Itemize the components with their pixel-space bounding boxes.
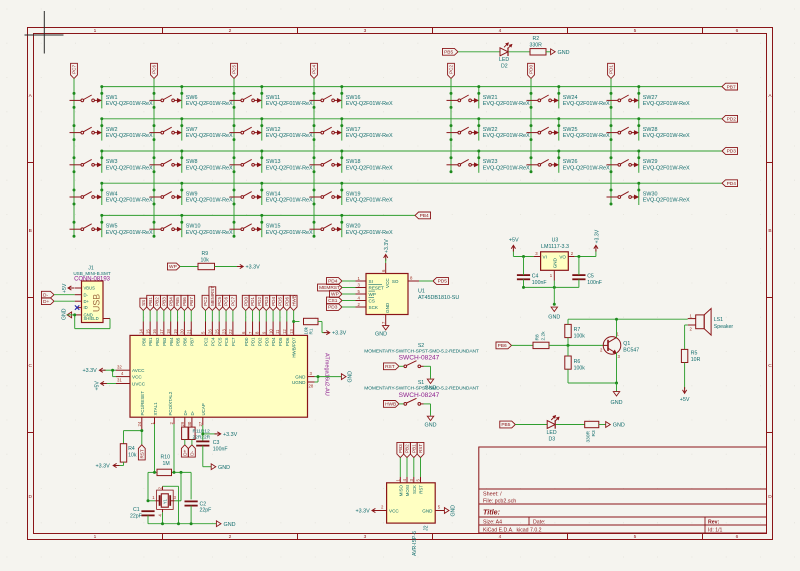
node PB5 label [174, 295, 181, 310]
wire U3 output [575, 250, 596, 257]
svg-text:SW20: SW20 [346, 224, 361, 230]
wire C5 leads [578, 257, 580, 288]
node PC7 label [230, 295, 237, 310]
svg-text:S1: S1 [418, 380, 424, 386]
svg-text:EVQ-Q2F01W-ReX: EVQ-Q2F01W-ReX [483, 133, 530, 139]
resistor R11 22R [182, 427, 188, 439]
wire WP to U1 [342, 293, 356, 295]
grid origin cross [25, 11, 64, 54]
svg-text:SS: SS [141, 300, 146, 306]
svg-text:PD5: PD5 [278, 297, 283, 306]
node PB4 label [167, 295, 174, 310]
svg-text:R1: R1 [309, 328, 314, 334]
switch SW22 [447, 127, 530, 139]
wire SW25 to row bus [558, 119, 560, 141]
svg-text:2: 2 [229, 28, 232, 34]
wire SW14 to row bus [261, 183, 263, 205]
ground GND (C3) [211, 464, 230, 471]
wire row bus PD2 [102, 118, 722, 120]
junction SW15 [233, 214, 264, 238]
pin 16 PB2 of U2 [152, 322, 160, 346]
wire MEMRST to U1 [342, 287, 356, 289]
wire U2 pin PB4 [170, 311, 172, 322]
svg-text:Title:: Title: [483, 507, 501, 516]
switch SW14 [230, 191, 313, 203]
wire U2 pin PC5 [218, 311, 220, 322]
svg-text:SW1: SW1 [106, 95, 118, 101]
svg-text:25: 25 [214, 329, 219, 334]
wire U2 pin PD1 [252, 311, 254, 322]
node PC6 column label [151, 63, 158, 78]
svg-text:32: 32 [117, 364, 122, 369]
svg-text:LED: LED [499, 57, 509, 63]
wire RST to S2 [399, 365, 404, 367]
node RST label (J2) [417, 442, 424, 457]
pin 20 PB6 of U2 [180, 322, 188, 346]
svg-text:22R22R: 22R22R [193, 435, 211, 441]
svg-text:PB3: PB3 [398, 444, 403, 453]
connector J2 reference [412, 525, 430, 556]
wire U2 pin PB3 [163, 311, 165, 322]
wire PD3 to U1 [342, 306, 356, 308]
wire R11 to D+ label [184, 440, 186, 445]
svg-text:PD4: PD4 [271, 337, 276, 346]
wire U2 pin PB6 [183, 311, 185, 322]
junction Q1 collector [615, 318, 618, 321]
connector J2 AVR-ISP-6 [387, 483, 436, 523]
pin 19 PB5 of U2 [173, 322, 181, 346]
junction SW7 [153, 117, 184, 141]
node PB7 label [188, 295, 195, 310]
svg-text:PD6: PD6 [285, 337, 290, 346]
wire PB5 to LED D3 [515, 424, 547, 426]
node PC6 label [223, 295, 230, 310]
svg-text:D+: D+ [43, 299, 49, 305]
svg-text:PD1: PD1 [609, 65, 614, 74]
ground GND (Q1) [611, 383, 623, 406]
svg-text:EVQ-Q2F01W-ReX: EVQ-Q2F01W-ReX [266, 165, 313, 171]
svg-text:PB3: PB3 [162, 297, 167, 306]
speaker LS1 [688, 309, 734, 336]
svg-text:EVQ-Q2F01W-ReX: EVQ-Q2F01W-ReX [346, 133, 393, 139]
svg-text:PD6: PD6 [285, 297, 290, 306]
svg-text:C4: C4 [532, 273, 539, 279]
svg-text:C: C [768, 363, 772, 369]
wire Q1 collector [616, 319, 618, 337]
svg-text:23: 23 [221, 329, 226, 334]
svg-text:EVQ-Q2F01W-ReX: EVQ-Q2F01W-ReX [266, 133, 313, 139]
svg-text:330R: 330R [586, 430, 592, 442]
svg-text:Speaker: Speaker [714, 324, 734, 330]
pin 2 VCC of J2 [376, 505, 399, 514]
wire PB2 to J2 [406, 458, 408, 477]
svg-text:MEMRST: MEMRST [210, 286, 215, 306]
svg-text:28: 28 [309, 384, 314, 389]
svg-text:UGND: UGND [292, 380, 306, 385]
power +3.3V (R9) [237, 264, 260, 270]
svg-text:EVQ-Q2F01W-ReX: EVQ-Q2F01W-ReX [643, 165, 690, 171]
node MEMRST label [209, 286, 216, 311]
svg-text:SW13: SW13 [266, 159, 281, 165]
svg-text:PB1: PB1 [148, 297, 153, 306]
svg-text:16: 16 [152, 329, 157, 334]
wire SW23 to row bus [478, 151, 480, 173]
wire LS1 pin2 to R5 [685, 325, 688, 349]
svg-text:SW16: SW16 [346, 95, 361, 101]
pin 17 PB3 of U2 [159, 322, 167, 346]
pin 5 PC2 of U2 [201, 322, 209, 347]
svg-text:C2: C2 [200, 501, 207, 507]
svg-text:PB1: PB1 [148, 337, 153, 346]
wire SW21 to row bus [478, 87, 480, 109]
wire SW9 to row bus [181, 183, 183, 205]
pin 11 PD5 of U2 [275, 322, 283, 347]
svg-text:PD0: PD0 [244, 337, 249, 346]
pin 29 D+ of U2 [180, 409, 188, 427]
svg-text:SW26: SW26 [563, 159, 578, 165]
svg-text:VI: VI [543, 254, 547, 259]
svg-text:SW7: SW7 [186, 127, 198, 133]
wire C1 to rail [147, 515, 149, 523]
junction U2 GND [317, 375, 320, 378]
wire HWB to S1 [399, 403, 404, 405]
svg-text:C5: C5 [587, 273, 594, 279]
svg-text:1: 1 [94, 28, 97, 34]
node PC2 label [202, 295, 209, 310]
wire ground rail (crystal) [148, 523, 216, 525]
svg-text:EVQ-Q2F01W-ReX: EVQ-Q2F01W-ReX [643, 198, 690, 204]
svg-text:B: B [768, 228, 771, 234]
wire SW22 to row bus [478, 119, 480, 141]
svg-text:100nF: 100nF [213, 446, 228, 452]
switch SW9 [150, 191, 233, 203]
pin 23 PC6 of U2 [221, 322, 229, 347]
switch SW27 [607, 95, 690, 107]
switch SW30 [607, 191, 690, 203]
svg-text:EVQ-Q2F01W-ReX: EVQ-Q2F01W-ReX [563, 101, 610, 107]
wire row bus PD3 [102, 150, 722, 152]
svg-text:SWCH-08247: SWCH-08247 [399, 392, 440, 399]
wire emitter to R6 [568, 382, 617, 384]
pin 7 PD1 of U2 [248, 322, 256, 347]
pin 7 GND of U1 [381, 315, 386, 326]
svg-text:100nF: 100nF [532, 280, 547, 286]
ground GND (LED D3) [606, 422, 625, 429]
pin 30 D- of U2 [187, 410, 195, 427]
ground GND (LED D2) [551, 49, 570, 56]
wire SW12 to row bus [261, 119, 263, 141]
switch S2 SWCH-08247 [364, 343, 479, 362]
svg-text:330R: 330R [530, 42, 543, 48]
switch SW6 [150, 95, 233, 107]
pin 25 PC5 of U2 [214, 322, 222, 347]
wire UVCC to +5V [105, 383, 116, 385]
switch S2 contacts [404, 361, 424, 368]
node PD4 row label [722, 180, 738, 187]
svg-text:EVQ-Q2F01W-ReX: EVQ-Q2F01W-ReX [643, 133, 690, 139]
resistor R10 1M [157, 455, 172, 476]
svg-text:SW18: SW18 [346, 159, 361, 165]
wire SW20 to row bus [341, 215, 343, 237]
wire GND of U2 to ground [315, 376, 342, 378]
wire LED D2 to R2 [509, 51, 531, 53]
svg-text:Id: 1/1: Id: 1/1 [708, 527, 723, 533]
svg-text:EVQ-Q2F01W-ReX: EVQ-Q2F01W-ReX [186, 198, 233, 204]
wire U2 pin PB7 [190, 311, 192, 322]
junction SW2 [73, 117, 104, 141]
wire D- to J1 [54, 294, 75, 296]
svg-text:PC6: PC6 [224, 337, 229, 346]
svg-text:R9: R9 [202, 251, 209, 257]
node PB5 label (LED D2) [442, 48, 458, 55]
junction SW14 [233, 182, 264, 206]
svg-text:2: 2 [229, 534, 232, 540]
svg-text:EVQ-Q2F01W-ReX: EVQ-Q2F01W-ReX [346, 198, 393, 204]
svg-text:10R: 10R [691, 357, 701, 363]
wire PC7 column [73, 79, 75, 237]
wire row bus PD4 [102, 182, 722, 184]
svg-text:EVQ-Q2F01W-ReX: EVQ-Q2F01W-ReX [106, 165, 153, 171]
svg-text:PB4: PB4 [169, 337, 174, 346]
switch SW29 [607, 159, 690, 171]
power +3.3V (J2) [356, 508, 379, 514]
svg-text:WP: WP [169, 264, 177, 270]
svg-text:EVQ-Q2F01W-ReX: EVQ-Q2F01W-ReX [346, 230, 393, 236]
wire SW29 to row bus [638, 151, 640, 173]
svg-text:LED: LED [547, 430, 557, 436]
wire R9 to +3.3V [215, 266, 240, 268]
svg-text:PB6: PB6 [182, 297, 187, 306]
svg-text:SW4: SW4 [106, 191, 118, 197]
svg-text:GND: GND [552, 257, 557, 268]
junction UCAP [201, 432, 204, 435]
wire HWB to R1 [294, 321, 300, 323]
wire U2 pin PB2 [156, 311, 158, 322]
switch SW18 [310, 159, 393, 171]
svg-text:EVQ-Q2F01W-ReX: EVQ-Q2F01W-ReX [346, 165, 393, 171]
svg-text:GND: GND [611, 400, 623, 406]
node PC4 column label [311, 63, 318, 78]
junction SW5 [73, 214, 104, 238]
pin 18 PB4 of U2 [166, 322, 174, 346]
pin 10 PD4 of U2 [268, 322, 276, 347]
svg-text:14: 14 [139, 329, 144, 334]
svg-text:Q1: Q1 [623, 341, 630, 347]
wire R6 leads [567, 345, 569, 383]
switch SW4 [70, 191, 153, 203]
svg-text:VCC: VCC [132, 375, 142, 380]
svg-text:6: 6 [736, 534, 739, 540]
node RST label (S2) [383, 363, 399, 370]
svg-text:HWB: HWB [385, 402, 396, 408]
svg-text:PB3: PB3 [162, 337, 167, 346]
node D- label (MCU) [189, 445, 196, 457]
switch SW2 [70, 127, 153, 139]
svg-text:GND: GND [375, 332, 387, 338]
switch SW28 [607, 127, 690, 139]
svg-text:4: 4 [499, 534, 502, 540]
svg-text:100k: 100k [574, 333, 586, 339]
svg-text:USB: USB [91, 294, 101, 312]
wire U1 VCC [385, 259, 387, 263]
pin 3 GND of U2 [295, 371, 314, 380]
svg-text:HWB/PD7: HWB/PD7 [292, 337, 297, 358]
svg-text:PB5: PB5 [176, 337, 181, 346]
svg-text:+5V: +5V [509, 238, 519, 244]
svg-text:PD4: PD4 [271, 297, 276, 306]
resistor R2 330R [530, 36, 547, 55]
svg-text:B: B [29, 228, 32, 234]
svg-text:Rev:: Rev: [708, 519, 720, 525]
svg-text:PB6: PB6 [498, 343, 507, 349]
svg-text:PD4: PD4 [727, 181, 737, 187]
svg-text:EVQ-Q2F01W-ReX: EVQ-Q2F01W-ReX [186, 230, 233, 236]
svg-text:EVQ-Q2F01W-ReX: EVQ-Q2F01W-ReX [186, 101, 233, 107]
wire +5V input to U3 [513, 250, 533, 257]
svg-text:PD0: PD0 [529, 65, 534, 74]
node PC5 column label [231, 63, 238, 78]
svg-text:PD1: PD1 [251, 337, 256, 346]
svg-text:Size: A4: Size: A4 [483, 519, 502, 525]
regulator U3 LM1117-3.3 [534, 238, 575, 281]
wire S2 to ground [424, 366, 431, 378]
svg-text:SW22: SW22 [483, 127, 498, 133]
node PD5 label (U1 SO) [433, 278, 449, 285]
svg-text:KiCad E.D.A. kicad 7.0.2: KiCad E.D.A. kicad 7.0.2 [483, 527, 542, 533]
svg-text:VO: VO [559, 254, 566, 259]
switch S1 contacts [404, 398, 424, 405]
svg-text:EVQ-Q2F01W-ReX: EVQ-Q2F01W-ReX [483, 165, 530, 171]
junction SW4 [73, 182, 104, 206]
svg-text:22pF: 22pF [200, 508, 212, 514]
wire UGND to GND [315, 377, 319, 382]
wire SW5 to row bus [101, 215, 103, 237]
svg-text:MOMENTARY-SWITCH-SPST-SMD-5.2-: MOMENTARY-SWITCH-SPST-SMD-5.2-REDUNDANT [364, 386, 479, 392]
wire U2 pin PD3 [265, 311, 267, 322]
node PD0 column label [528, 63, 535, 78]
svg-text:D+: D+ [183, 409, 188, 415]
svg-text:GND: GND [558, 50, 570, 56]
svg-text:30: 30 [187, 421, 192, 426]
node PD5 label [277, 295, 284, 310]
wire RESET net [124, 431, 142, 445]
node PD1 column label [608, 63, 615, 78]
svg-text:U1: U1 [418, 289, 425, 295]
wire XTAL1 to rail [154, 424, 156, 472]
power +3.3V (R1) [324, 331, 347, 337]
svg-text:SW28: SW28 [643, 127, 658, 133]
junction SW12 [233, 117, 264, 141]
svg-text:R6: R6 [574, 359, 581, 365]
svg-text:SW17: SW17 [346, 127, 361, 133]
svg-text:MOSI: MOSI [405, 485, 410, 496]
svg-text:GND: GND [218, 465, 230, 471]
svg-text:29: 29 [180, 421, 185, 426]
wire U2 pin PD2 [258, 311, 260, 322]
svg-text:PC7: PC7 [231, 297, 236, 306]
junction GND symbol [553, 303, 556, 306]
node HWB label (S1) [383, 401, 399, 408]
junction SW23 [450, 150, 481, 174]
svg-text:SW30: SW30 [643, 191, 658, 197]
svg-text:PD5: PD5 [438, 279, 448, 285]
node PD4 label [270, 295, 277, 310]
svg-text:R4: R4 [128, 446, 135, 452]
wire CS1 to U1 [342, 300, 356, 302]
svg-text:PC4: PC4 [312, 65, 317, 74]
svg-text:R3: R3 [591, 430, 597, 436]
pin 1 of U1 [356, 276, 367, 281]
svg-text:EVQ-Q2F01W-ReX: EVQ-Q2F01W-ReX [563, 165, 610, 171]
switch SW10 [150, 224, 233, 236]
wire U2 pin PC2 [205, 311, 207, 322]
node PD0 label [242, 295, 249, 310]
wire XTAL2 to rail [173, 424, 175, 472]
pin 1 XTAL1 of U2 [150, 402, 158, 425]
junction RESET [140, 429, 143, 432]
svg-text:D2: D2 [501, 64, 508, 70]
ground GND (crystal) [216, 521, 235, 528]
pin 4 MOSI of J2 [402, 477, 410, 496]
svg-text:PC4: PC4 [210, 337, 215, 346]
node PD2 row label [722, 115, 738, 122]
svg-text:21: 21 [186, 329, 191, 334]
svg-text:4: 4 [499, 28, 502, 34]
node PD4 label (U1) [326, 278, 342, 285]
wire RST to J2 [420, 458, 422, 477]
svg-text:R8: R8 [535, 334, 541, 340]
pin 2 PCO/XTAL2 of U2 [168, 391, 174, 424]
svg-text:EVQ-Q2F01W-ReX: EVQ-Q2F01W-ReX [643, 101, 690, 107]
svg-text:D-: D- [84, 292, 89, 297]
wire U2 pin PB1 [149, 311, 151, 322]
svg-text:24: 24 [137, 421, 142, 426]
svg-text:File: pcb2.sch: File: pcb2.sch [483, 498, 516, 504]
svg-text:1M: 1M [163, 461, 170, 467]
pin 22 PC7 of U2 [228, 322, 236, 347]
pin 14 PB0 of U2 [139, 322, 147, 346]
junction XTAL2 rail [173, 471, 176, 474]
svg-text:EVQ-Q2F01W-ReX: EVQ-Q2F01W-ReX [106, 101, 153, 107]
wire R8 to Q1 base [549, 344, 603, 346]
switch SW3 [70, 159, 153, 171]
svg-text:PB4: PB4 [420, 213, 429, 219]
svg-text:PC2: PC2 [203, 297, 208, 306]
svg-text:ATmega16u2-AU: ATmega16u2-AU [324, 353, 330, 396]
svg-text:15: 15 [145, 329, 150, 334]
svg-text:USB_MINI-B.SMT: USB_MINI-B.SMT [73, 271, 110, 276]
svg-text:PD5: PD5 [278, 337, 283, 346]
junction SW18 [313, 150, 344, 174]
switch SW5 [70, 224, 153, 236]
capacitor C5 100nF [572, 273, 602, 285]
svg-text:PB7: PB7 [189, 337, 194, 346]
junction SW19 [313, 182, 344, 206]
power +3.3V (UCAP) [215, 432, 238, 438]
junction SW22 [450, 117, 481, 141]
node PB7 row label [722, 83, 738, 90]
junction XTAL1 rail [153, 471, 156, 474]
svg-text:EVQ-Q2F01W-ReX: EVQ-Q2F01W-ReX [483, 101, 530, 107]
wire SW8 to row bus [181, 151, 183, 173]
wire U3 GND down [553, 287, 555, 303]
svg-text:UCAP: UCAP [201, 403, 206, 415]
pin 4 VCC of U2 [116, 371, 142, 380]
svg-text:VCC: VCC [385, 278, 390, 288]
junction SW16 [313, 85, 344, 109]
svg-text:AVR-ISP-6: AVR-ISP-6 [412, 531, 418, 556]
connector J1 USB_MINI-B.SMT [73, 266, 110, 323]
